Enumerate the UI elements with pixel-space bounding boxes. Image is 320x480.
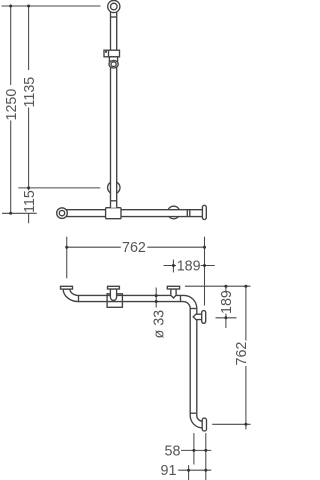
extension line at ring level [18, 187, 100, 189]
svg-text:762: 762 [234, 342, 250, 366]
slider knob dot [105, 51, 107, 53]
dot 189 first left [172, 264, 175, 267]
tube seam tick before right bend [180, 295, 182, 301]
dim 189 second vertical [225, 286, 227, 328]
189 second bottom tick [216, 317, 237, 319]
dot 189 second top [224, 285, 227, 288]
bar right wall flange [202, 205, 206, 219]
horizontal grab bar tube [63, 210, 203, 217]
dimension labels [4, 77, 250, 479]
tube seam tick above bottom bend [190, 412, 197, 414]
dot 91 right [204, 469, 207, 472]
right support flange plate (plan) [167, 286, 179, 289]
tube seam tick after left bend [78, 295, 80, 301]
rail seam tick above T-block [111, 200, 117, 202]
dot 58 right [204, 449, 207, 452]
slider block divider [108, 50, 110, 57]
top extension line [2, 5, 101, 7]
dot 762 right top [244, 285, 247, 288]
rail wall-support ring (elevation) [108, 181, 120, 193]
svg-text:1135: 1135 [22, 77, 38, 108]
middle rail-holder clamp (plan) [107, 294, 122, 308]
dot 762 right bottom [244, 423, 247, 426]
svg-text:91: 91 [161, 463, 177, 479]
dim 762 right vertical [245, 286, 247, 429]
extension line tube edge (bottom) [188, 465, 190, 480]
dot 1250 bottom [9, 212, 12, 215]
svg-text:ø 33: ø 33 [151, 310, 167, 339]
762 right bottom extension [212, 423, 250, 425]
bar seam ticks near right end [187, 210, 190, 217]
dot 762 top-left [65, 246, 68, 249]
slider collar [109, 57, 117, 62]
dim 58 horizontal [181, 449, 211, 451]
T-junction block [106, 208, 121, 219]
svg-text:115: 115 [22, 190, 38, 213]
svg-text:58: 58 [165, 444, 181, 460]
L-shaped tube run (plan) [63, 289, 202, 428]
extension line wall face (bottom) [205, 433, 207, 480]
dim line 1135 vertical [28, 6, 30, 223]
dim 189 first horizontal [164, 265, 215, 267]
left wall flange plate (plan) [61, 286, 73, 289]
middle rail-holder stem (plan) [110, 289, 116, 300]
dot ø33 top [155, 294, 158, 297]
extension line at bar axis [2, 212, 37, 214]
762 left extension line [66, 237, 68, 279]
slider ring outer [109, 60, 118, 68]
svg-text:1250: 1250 [4, 89, 20, 121]
right support stem (plan) [171, 289, 176, 298]
middle support flange plate (plan) [108, 286, 120, 289]
dot 58 left [192, 449, 195, 452]
bar wall-support ring (elevation) [167, 206, 180, 219]
extension line tube axis (bottom) [193, 433, 195, 464]
dim 91 horizontal [178, 469, 211, 471]
tube seam tick below top-right bend [190, 308, 197, 310]
bar left end cap outer [57, 208, 68, 219]
762/189 right extension line [204, 237, 206, 306]
slider ring inner [111, 62, 116, 67]
189 left extension tick [172, 260, 174, 273]
dot 1135 bottom [27, 186, 30, 189]
rail top circle inner [111, 3, 118, 10]
rail seam tick below top circle [111, 16, 117, 18]
svg-text:189: 189 [177, 259, 201, 275]
svg-text:762: 762 [122, 240, 146, 256]
dot 91 left [187, 469, 190, 472]
wall extension line (plan) [185, 285, 251, 287]
side support stem (plan) [193, 314, 202, 319]
vertical shower rail tube [111, 11, 117, 208]
ø33 leader line [155, 288, 157, 308]
dot 1250 top [9, 5, 12, 8]
bottom wall flange (plan) [202, 418, 206, 431]
dot 1135 top [27, 5, 30, 8]
dimension dots [9, 5, 247, 472]
dot 189 first right [203, 264, 206, 267]
dim line 1250 vertical [10, 6, 12, 213]
rail top circle outer [108, 0, 120, 12]
side support flange plate (plan) [202, 311, 206, 324]
dot ø33 bottom [155, 300, 158, 303]
dim 762 top horizontal [67, 246, 205, 248]
svg-text:189: 189 [219, 290, 235, 314]
bar left end cap inner [59, 210, 64, 215]
slider block [104, 50, 120, 57]
dot 189 second bottom [224, 316, 227, 319]
dot 762 top-right [203, 246, 206, 249]
